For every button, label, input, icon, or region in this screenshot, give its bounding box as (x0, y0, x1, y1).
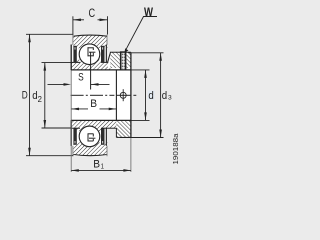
d2 dimension line (44, 63, 46, 128)
sleeve bottom surface (71, 127, 80, 129)
screw hole crosshair circle (120, 92, 126, 98)
inner ring bottom section hatch (71, 120, 116, 131)
S dimension (48, 83, 110, 85)
set screw (120, 52, 127, 70)
D extension lines (26, 33, 73, 35)
svg-text:d: d (162, 90, 167, 102)
collar bottom hatched (116, 120, 130, 137)
label d (highlighted) (148, 90, 155, 99)
svg-text:190188a: 190188a (171, 133, 180, 165)
outer ring outline (73, 35, 107, 156)
ball centre extension line (90, 53, 92, 90)
svg-text:1: 1 (101, 161, 104, 170)
bearing dimension drawing 190188a (0, 0, 193, 179)
C dimension line + arrows (73, 19, 108, 21)
left extension line (inner ring face) down to B1 (70, 70, 72, 172)
B dimension (72, 108, 117, 110)
d2 extension lines (42, 62, 72, 64)
svg-text:3: 3 (168, 94, 172, 101)
inner ring top section hatch (71, 60, 110, 70)
collar right face (130, 52, 132, 137)
ball top (79, 44, 100, 65)
outer ring bottom hatched section (73, 142, 107, 155)
D dimension line (29, 34, 31, 155)
cage pocket marks bottom ball (88, 134, 96, 142)
inner ring raceway white cut around balls (79, 43, 101, 65)
d3 dimension line (160, 53, 162, 138)
cage pocket marks top ball (88, 47, 96, 56)
seal right top (101, 46, 105, 63)
svg-text:B: B (93, 158, 100, 170)
svg-text:C: C (89, 7, 96, 20)
raceway clearance around balls (white) (79, 43, 101, 65)
seal left top (73, 46, 76, 63)
d3 extension lines (129, 52, 164, 54)
inner ring left face (70, 45, 72, 71)
C extension lines (72, 16, 74, 34)
collar top hatched (left of screw) (110, 52, 120, 68)
white notch under collar step (108, 64, 110, 69)
svg-text:2: 2 (38, 95, 43, 104)
centerline (axis) (71, 94, 137, 96)
seal right bottom (101, 128, 105, 145)
svg-text:D: D (22, 90, 28, 102)
outer ring top hatched section (73, 35, 107, 48)
B1 dimension (71, 169, 131, 171)
svg-text:S: S (78, 72, 84, 84)
seal left bottom (73, 128, 76, 145)
sleeve top surface (71, 61, 80, 63)
ball bottom (79, 126, 100, 147)
d extension lines (131, 69, 150, 71)
step / inner ring right face through bore (115, 70, 117, 121)
inner ring outline (71, 52, 131, 137)
bore lines (71, 69, 131, 71)
right extension line (collar face) down to B1 (130, 138, 132, 173)
collar top hatched (right of screw) (126, 52, 131, 68)
svg-text:B: B (90, 98, 97, 110)
collar top outline (110, 51, 131, 53)
white body silhouettes (72, 35, 107, 156)
outer ring faces (73, 35, 107, 157)
d dimension line (145, 70, 147, 121)
svg-text:d: d (148, 90, 153, 102)
collar bottom outline (116, 136, 130, 138)
